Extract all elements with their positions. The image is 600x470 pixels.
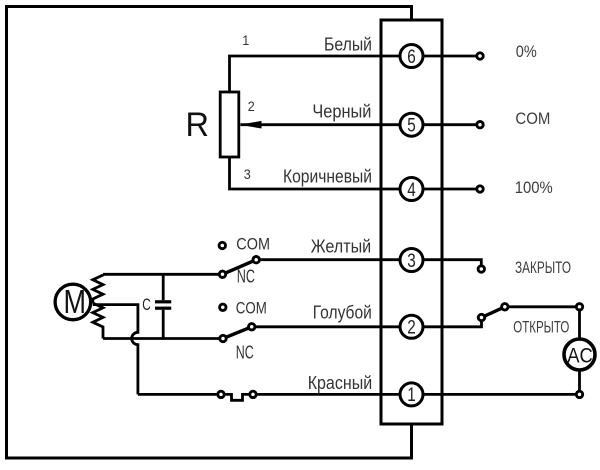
wire bottom rail motor to switch2 bbox=[103, 337, 220, 340]
terminal 3 circle bbox=[400, 249, 423, 272]
wire Красный left segment bbox=[138, 393, 218, 396]
svg-text:Красный: Красный bbox=[308, 373, 373, 393]
terminal 5 circle bbox=[400, 113, 423, 136]
svg-text:Черный: Черный bbox=[312, 102, 371, 122]
switch2 blade tip dot bbox=[249, 324, 255, 330]
potentiometer R body bbox=[220, 92, 239, 157]
svg-text:3: 3 bbox=[244, 166, 251, 182]
svg-text:Желтый: Желтый bbox=[311, 236, 372, 256]
svg-text:COM: COM bbox=[236, 299, 267, 318]
capacitor C stem bottom bbox=[162, 310, 165, 339]
enclosure border bbox=[7, 7, 412, 459]
switch1 pivot dot bbox=[219, 271, 225, 277]
motor upper winding zigzag bbox=[93, 274, 103, 303]
svg-text:NC: NC bbox=[237, 267, 255, 287]
terminal 2 circle bbox=[400, 315, 423, 338]
capacitor C bottom plate bbox=[155, 307, 171, 310]
terminal block bbox=[381, 20, 442, 424]
motor M circle bbox=[55, 284, 91, 320]
svg-text:4: 4 bbox=[407, 180, 416, 201]
svg-text:NC: NC bbox=[236, 343, 254, 363]
ЗАКРЫТО open contact dot bbox=[478, 266, 484, 272]
svg-text:Белый: Белый bbox=[324, 35, 372, 55]
wire AC bottom to Красный bbox=[578, 356, 581, 394]
svg-text:AC: AC bbox=[567, 344, 593, 368]
svg-text:Голубой: Голубой bbox=[313, 303, 372, 323]
svg-text:ОТКРЫТО: ОТКРЫТО bbox=[513, 319, 569, 337]
svg-text:100%: 100% bbox=[515, 178, 553, 197]
ОТКРЫТО switch pivot dot bbox=[478, 314, 484, 320]
svg-text:1: 1 bbox=[242, 32, 249, 48]
wire pot pin3 to terminal 4 (Коричневый) bbox=[230, 157, 481, 189]
terminal 100% dot bbox=[477, 186, 483, 192]
svg-text:5: 5 bbox=[407, 116, 416, 137]
node AC top corner bbox=[576, 304, 582, 310]
capacitor C top plate bbox=[155, 300, 171, 303]
wire top rail motor to switch1 bbox=[103, 273, 219, 276]
switch2 pivot dot bbox=[220, 335, 226, 341]
terminal COM dot bbox=[477, 122, 483, 128]
terminal 6 circle bbox=[400, 45, 423, 68]
switch2 blade (NC closed) bbox=[223, 327, 252, 339]
thermal protector right dot bbox=[250, 391, 256, 397]
svg-text:COM: COM bbox=[515, 109, 550, 128]
motor lower winding zigzag bbox=[93, 303, 103, 339]
wire motor middle tap with hop over bottom rail bbox=[93, 305, 138, 395]
terminal 0% dot bbox=[477, 53, 483, 59]
switch2 COM contact dot bbox=[220, 304, 226, 310]
wire ОТКРЫТО contact to AC top bbox=[505, 307, 580, 356]
switch1 blade tip dot bbox=[253, 257, 259, 263]
ОТКРЫТО switch tip dot bbox=[502, 304, 508, 310]
wire terminal 5 to pot wiper (Черный) bbox=[241, 123, 481, 126]
svg-text:COM: COM bbox=[236, 234, 270, 253]
capacitor C stem top bbox=[162, 274, 165, 300]
svg-text:M: M bbox=[64, 283, 87, 320]
svg-text:C: C bbox=[142, 295, 151, 314]
node AC bottom bbox=[576, 391, 582, 397]
wire Красный right segment to terminal 1 and AC bbox=[256, 393, 579, 396]
AC source circle bbox=[564, 339, 595, 370]
svg-text:2: 2 bbox=[407, 318, 416, 339]
wire switch2 to terminal 2 (Голубой) and ОТКРЫТО contact bbox=[252, 321, 482, 327]
svg-text:6: 6 bbox=[407, 47, 416, 68]
svg-text:0%: 0% bbox=[516, 42, 537, 61]
terminal 4 circle bbox=[400, 178, 423, 201]
wiper arrowhead bbox=[240, 121, 262, 129]
wire pot pin1 to terminal 6 (Белый) bbox=[230, 56, 481, 92]
svg-text:ЗАКРЫТО: ЗАКРЫТО bbox=[515, 259, 571, 277]
switch1 COM contact dot bbox=[219, 242, 225, 248]
svg-text:1: 1 bbox=[407, 385, 416, 406]
svg-text:R: R bbox=[186, 106, 210, 144]
thermal protector left dot bbox=[218, 391, 224, 397]
terminal 1 circle bbox=[400, 383, 423, 406]
wire switch1 to terminal 3 (Желтый) and ЗАКРЫТО contact bbox=[256, 260, 481, 266]
switch1 blade (NC closed) bbox=[223, 260, 257, 275]
svg-text:3: 3 bbox=[407, 251, 416, 272]
svg-text:2: 2 bbox=[248, 98, 255, 114]
svg-text:Коричневый: Коричневый bbox=[283, 167, 372, 187]
ОТКРЫТО switch blade bbox=[482, 307, 505, 318]
thermal protector F1 bbox=[224, 394, 249, 400]
